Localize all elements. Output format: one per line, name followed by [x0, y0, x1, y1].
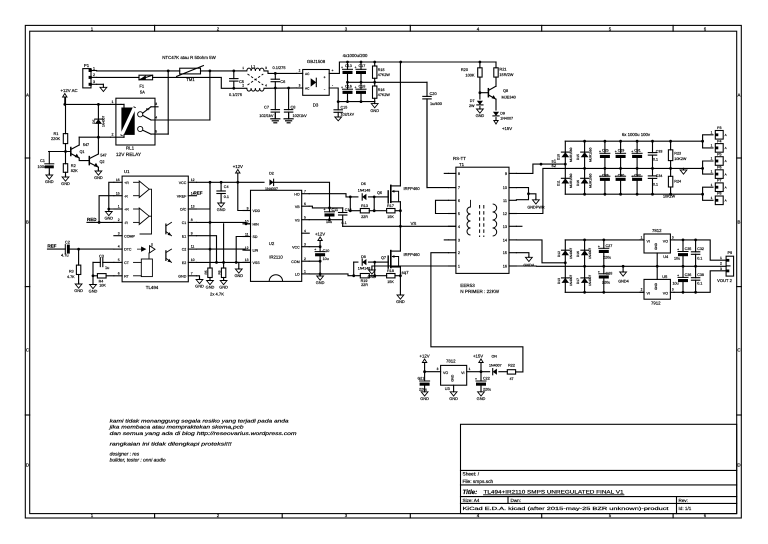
svg-text:11: 11 — [191, 245, 195, 249]
U1 dtc arrow — [137, 247, 146, 251]
wire to P7 P8 — [703, 187, 713, 194]
svg-text:+12V AC: +12V AC — [61, 88, 78, 93]
svg-text:12: 12 — [503, 212, 507, 216]
svg-text:VO: VO — [443, 371, 448, 375]
svg-text:+R: +R — [124, 208, 129, 212]
svg-text:Id: 1/1: Id: 1/1 — [679, 506, 692, 511]
svg-text:C2: C2 — [182, 248, 187, 252]
svg-text:VDD: VDD — [253, 209, 261, 213]
svg-text:C29: C29 — [618, 148, 625, 152]
svg-text:RT: RT — [124, 274, 130, 278]
wire after fuse to choke — [153, 77, 234, 88]
relay RL1 box — [116, 98, 155, 145]
wire HIN tie vertical — [223, 224, 225, 263]
wire U1 C2 row to U2 LIN — [197, 249, 251, 250]
svg-text:AC: AC — [305, 87, 310, 91]
svg-text:1: 1 — [711, 170, 713, 174]
ground below R3 — [78, 283, 80, 284]
svg-text:C33: C33 — [656, 150, 663, 154]
svg-text:C7: C7 — [264, 105, 269, 110]
svg-text:C32: C32 — [697, 247, 704, 251]
svg-text:10: 10 — [245, 220, 249, 224]
svg-text:10K: 10K — [99, 284, 106, 288]
svg-text:U4: U4 — [663, 254, 669, 259]
svg-text:102/1kV: 102/1kV — [259, 113, 274, 118]
ground below U3 — [453, 385, 455, 391]
wire relay feed row — [65, 103, 111, 105]
capacitor C2 4.7u — [48, 248, 66, 250]
svg-text:R23: R23 — [674, 152, 681, 156]
svg-text:22R: 22R — [361, 283, 368, 287]
wire to P5 P6 — [684, 161, 714, 168]
svg-text:47K2W: 47K2W — [378, 93, 391, 97]
svg-text:7: 7 — [458, 186, 460, 190]
capacitor C27 220u — [603, 240, 605, 248]
svg-text:builder, tester : onni audio: builder, tester : onni audio — [110, 457, 166, 463]
svg-text:6x 1000u 100v: 6x 1000u 100v — [622, 132, 651, 137]
capacitor C6 X2 — [274, 73, 276, 79]
T1 right pin stubs — [509, 172, 516, 174]
svg-text:5: 5 — [304, 216, 306, 220]
svg-text:1N4148: 1N4148 — [358, 189, 371, 193]
svg-text:0.1/275: 0.1/275 — [273, 65, 286, 70]
svg-text:GND: GND — [654, 282, 658, 290]
svg-text:GND: GND — [89, 289, 98, 294]
ground GND4 on mid rail — [622, 266, 624, 271]
T1 pin6-pin5 jumper — [436, 200, 449, 213]
svg-text:+: + — [341, 66, 343, 70]
thermistor TM1 — [180, 68, 201, 74]
op-amp U1 TL494 box — [122, 176, 188, 282]
ground at U2 VSS net — [238, 262, 240, 268]
svg-text:4x1000u/200: 4x1000u/200 — [343, 53, 368, 58]
svg-text:1N4007: 1N4007 — [569, 248, 573, 259]
svg-text:-R: -R — [124, 194, 128, 198]
relay coil — [121, 108, 134, 135]
ground below COM — [319, 261, 321, 275]
T1 pin15 wire to GNDA — [516, 253, 529, 257]
svg-text:R16: R16 — [378, 88, 385, 92]
svg-text:+: + — [615, 174, 617, 178]
diode D13 1N4007 — [562, 278, 570, 283]
wire vertical C1/C2 tie — [209, 182, 211, 268]
transistor Q1 — [70, 148, 72, 156]
junction — [209, 70, 212, 73]
capacitor C14 bootstrap — [342, 208, 344, 213]
svg-text:3: 3 — [118, 231, 120, 235]
svg-text:designer : res: designer : res — [110, 451, 140, 457]
wire choke stubs left — [234, 70, 247, 72]
T1 pin12 wire to s2 — [516, 168, 584, 213]
svg-text:P8: P8 — [717, 192, 721, 196]
svg-text:C21: C21 — [418, 376, 425, 380]
svg-text:15: 15 — [503, 251, 507, 255]
svg-text:3: 3 — [304, 243, 306, 247]
T1 pin1 wire to ground — [372, 266, 449, 270]
diode D19 1N4007 — [481, 371, 490, 373]
svg-text:6: 6 — [118, 271, 120, 275]
svg-text:T1: T1 — [459, 162, 465, 167]
+12V power flag aux — [424, 363, 426, 372]
wire U1 C1 row to U2 HIN — [197, 222, 251, 223]
wire U4 output row — [674, 240, 726, 260]
svg-text:U1: U1 — [124, 169, 130, 174]
svg-text:GND: GND — [476, 113, 485, 118]
ground below C21 — [424, 391, 426, 393]
capacitor C18 — [360, 82, 362, 89]
svg-text:1: 1 — [711, 130, 713, 134]
ground HV minus — [374, 102, 376, 104]
svg-text:12: 12 — [191, 178, 195, 182]
resistor R21 15R/2W — [495, 62, 497, 68]
svg-text:B: B — [738, 220, 741, 225]
diode D9 — [495, 99, 497, 110]
svg-text:MUR1560: MUR1560 — [569, 147, 573, 162]
svg-text:100u: 100u — [38, 164, 47, 169]
regulator U5 7912 — [644, 279, 670, 299]
svg-text:0.1: 0.1 — [697, 281, 702, 285]
svg-text:1: 1 — [93, 66, 95, 70]
svg-text:s2: s2 — [552, 163, 557, 168]
U1 output transistor 1 — [165, 224, 167, 234]
svg-text:1: 1 — [711, 196, 713, 200]
resistor R18 15K — [375, 275, 387, 277]
svg-text:+: + — [598, 270, 600, 274]
capacitor C34 0.1 — [652, 168, 654, 176]
svg-text:EER53: EER53 — [460, 283, 475, 288]
svg-text:0.1: 0.1 — [697, 256, 702, 260]
svg-text:RS-TT: RS-TT — [453, 156, 466, 161]
+12V power flag at U1 — [237, 173, 239, 182]
svg-text:C4: C4 — [224, 185, 229, 189]
svg-text:C31: C31 — [634, 148, 641, 152]
wire HV mid rail — [348, 81, 428, 83]
wire relay NO bypass vertical — [167, 71, 169, 134]
svg-text:C27: C27 — [606, 244, 613, 248]
svg-text:+15V: +15V — [473, 354, 483, 359]
svg-text:Dwn:: Dwn: — [511, 498, 521, 503]
U1 pwm buffer triangle — [150, 246, 156, 253]
svg-text:O/C: O/C — [180, 208, 187, 212]
svg-text:1u/400: 1u/400 — [430, 101, 443, 106]
svg-text:C10: C10 — [323, 249, 330, 253]
capacitor C38 0.1 — [695, 266, 697, 277]
svg-text:+: + — [599, 149, 601, 153]
svg-text:+: + — [354, 86, 356, 90]
svg-text:+15V: +15V — [502, 126, 512, 131]
svg-text:F1: F1 — [139, 84, 145, 89]
svg-text:P7: P7 — [717, 179, 721, 183]
svg-text:+: + — [341, 86, 343, 90]
junction — [167, 70, 170, 73]
svg-text:D9: D9 — [500, 111, 505, 115]
svg-text:7812: 7812 — [652, 228, 662, 233]
wire HV top rail — [348, 61, 497, 63]
svg-text:14: 14 — [503, 238, 507, 242]
svg-text:File: smps.sch: File: smps.sch — [463, 479, 494, 485]
svg-text:+: + — [314, 247, 316, 251]
svg-text:A: A — [725, 146, 727, 150]
wire gate Q7 — [375, 261, 389, 263]
svg-text:D5: D5 — [92, 120, 96, 124]
svg-text:4: 4 — [458, 225, 460, 229]
svg-text:P3: P3 — [717, 126, 721, 130]
U1 comparator 2 — [139, 208, 149, 225]
wire C2 to DTC pin — [79, 248, 114, 250]
capacitor C33 0.1 — [652, 141, 654, 152]
svg-text:MUR1560: MUR1560 — [588, 147, 592, 162]
svg-text:1u: 1u — [105, 265, 109, 270]
svg-text:2: 2 — [299, 69, 301, 73]
wire output mid rail — [585, 167, 684, 169]
wire SD tie vertical — [236, 237, 250, 263]
T1 left pin stubs — [449, 172, 456, 174]
wire Q6 source to VS — [399, 202, 401, 227]
svg-text:3: 3 — [265, 66, 267, 70]
svg-text:C: C — [26, 348, 29, 353]
svg-text:1: 1 — [641, 235, 643, 239]
relay pin 1 — [111, 103, 122, 105]
svg-text:GND: GND — [206, 285, 215, 290]
svg-text:GBJ1508: GBJ1508 — [307, 59, 326, 64]
wire U1 +R pins tie — [109, 182, 114, 209]
U1 oscillator box — [141, 259, 152, 277]
svg-text:A: A — [725, 185, 727, 189]
svg-text:NTC47K atau R 50ohm 5W: NTC47K atau R 50ohm 5W — [162, 55, 216, 60]
svg-text:0.1/275: 0.1/275 — [229, 92, 242, 97]
resistor R20 100K — [479, 62, 481, 68]
svg-text:VB: VB — [295, 205, 300, 209]
svg-text:Rev:: Rev: — [679, 498, 688, 503]
resistor R4 10K — [97, 274, 106, 278]
U1 comparator 1 — [139, 181, 149, 198]
wire bridge AC pins — [297, 72, 303, 74]
svg-text:GND4: GND4 — [618, 279, 629, 283]
relay pin com wire — [143, 116, 151, 121]
svg-text:2: 2 — [93, 73, 95, 77]
svg-text:1: 1 — [711, 157, 713, 161]
svg-text:VI: VI — [647, 240, 650, 244]
relay pin nc stub — [151, 106, 158, 108]
svg-text:VCC: VCC — [292, 245, 300, 249]
svg-text:+: + — [354, 66, 356, 70]
regulator U3 7812 — [441, 365, 467, 385]
capacitor C17 — [360, 62, 362, 69]
svg-text:GND: GND — [178, 274, 186, 278]
svg-text:E2: E2 — [182, 261, 186, 265]
svg-text:+: + — [324, 208, 326, 212]
svg-text:C18: C18 — [359, 85, 366, 89]
svg-text:VCC: VCC — [179, 181, 187, 185]
svg-text:2: 2 — [304, 257, 306, 261]
svg-text:+: + — [598, 244, 600, 248]
svg-text:VS: VS — [295, 218, 300, 222]
svg-text:R15: R15 — [378, 68, 385, 72]
ground below C22 — [480, 391, 482, 393]
U1 left pin stubs — [114, 181, 122, 183]
svg-text:2: 2 — [242, 84, 244, 88]
T1 secondary winding — [493, 204, 497, 212]
svg-text:7: 7 — [304, 190, 306, 194]
svg-text:3: 3 — [437, 367, 439, 371]
svg-text:+: + — [599, 174, 601, 178]
capacitor C20 coupling — [426, 82, 428, 96]
chassis earth below C8 — [288, 114, 290, 119]
wire output bottom rail — [565, 193, 702, 195]
svg-text:Q2: Q2 — [99, 160, 104, 164]
svg-text:C34: C34 — [656, 174, 663, 178]
svg-text:Q1: Q1 — [79, 150, 84, 154]
svg-text:Title:: Title: — [463, 489, 478, 496]
svg-text:COMP: COMP — [124, 234, 135, 238]
svg-text:P1: P1 — [84, 63, 90, 68]
svg-text:10: 10 — [503, 186, 507, 190]
svg-text:GND: GND — [45, 179, 54, 184]
+15V power flag — [495, 120, 497, 122]
svg-text:5: 5 — [458, 212, 460, 216]
svg-text:VOUT 2: VOUT 2 — [717, 278, 732, 283]
svg-text:C13: C13 — [345, 64, 352, 68]
transistor Q7 IRFP460 — [387, 256, 389, 268]
svg-text:C15: C15 — [341, 105, 348, 109]
svg-text:VO: VO — [663, 292, 668, 296]
svg-text:CT: CT — [124, 261, 130, 265]
svg-text:GNDPWR: GNDPWR — [527, 205, 545, 209]
svg-text:A: A — [725, 172, 727, 176]
fuse F1 — [139, 75, 153, 80]
svg-text:Size: A4: Size: A4 — [463, 498, 480, 503]
wire Q7 source to ground — [399, 267, 401, 295]
wire after thermistor — [201, 70, 234, 72]
svg-text:15R/2W: 15R/2W — [499, 72, 513, 77]
wire aux bottom rail — [565, 291, 644, 293]
T1 pin14 wire to aux rect — [516, 240, 565, 263]
capacitor C30 — [620, 168, 622, 176]
wire VS rail — [343, 225, 456, 227]
svg-text:10K2W: 10K2W — [674, 157, 687, 161]
svg-text:+: + — [631, 174, 633, 178]
svg-text:R6: R6 — [217, 270, 221, 274]
wire bridge plus output — [329, 62, 347, 73]
svg-text:D: D — [737, 463, 740, 468]
U1 comparator output wire — [140, 189, 152, 234]
svg-text:C17: C17 — [359, 64, 366, 68]
diode D7 zener — [479, 93, 481, 99]
wire C20 to transformer pin7 — [427, 100, 449, 188]
svg-text:D16: D16 — [576, 180, 580, 186]
transistor Q2 — [88, 157, 90, 165]
T1 pin9 wire to s1 — [516, 164, 565, 173]
transistor Q6 IRFP460 — [387, 191, 389, 203]
ground below R2 — [65, 176, 67, 178]
border column ticks top/bottom — [154, 25, 156, 31]
svg-text:2x 4.7K: 2x 4.7K — [210, 291, 224, 296]
svg-text:P5: P5 — [717, 152, 721, 156]
svg-text:12V RELAY: 12V RELAY — [116, 152, 142, 158]
resistor R2 82K — [65, 152, 67, 164]
svg-text:RL1: RL1 — [126, 146, 135, 151]
svg-text:3: 3 — [458, 238, 460, 242]
svg-text:547: 547 — [100, 154, 106, 158]
svg-text:16: 16 — [503, 265, 507, 269]
wire regulators GND tie — [656, 253, 658, 279]
svg-text:E1: E1 — [182, 234, 186, 238]
svg-text:R3: R3 — [69, 270, 74, 274]
capacitor C10 — [319, 247, 321, 252]
ground small below C15 — [335, 117, 342, 121]
resistor R23 10K2W — [670, 141, 672, 150]
svg-text:8: 8 — [191, 218, 193, 222]
svg-text:GND: GND — [449, 396, 458, 401]
svg-text:R18: R18 — [387, 269, 394, 273]
svg-text:REF: REF — [194, 191, 203, 196]
ground at Q2 emitter — [97, 167, 99, 169]
T1 pin10 pin11 wires to GNDPWR — [516, 188, 528, 200]
svg-text:nc: nc — [146, 107, 150, 111]
svg-text:kami tidak menanggung segala r: kami tidak menanggung segala resiko yang… — [110, 418, 289, 424]
svg-text:D16: D16 — [576, 251, 580, 257]
svg-text:Sheet: /: Sheet: / — [463, 472, 480, 478]
svg-text:4.7u: 4.7u — [61, 253, 69, 258]
capacitor C26 — [604, 168, 606, 176]
svg-text:2W: 2W — [469, 104, 475, 108]
+12V power flag at U2 VCC — [319, 241, 321, 247]
svg-text:GND: GND — [104, 216, 113, 221]
svg-text:R22: R22 — [508, 363, 515, 367]
op-amp U2 IR2110 box — [251, 190, 302, 281]
wire D2 to VB node — [274, 182, 330, 208]
svg-text:10u: 10u — [323, 257, 329, 261]
capacitor C21 220u — [424, 372, 426, 381]
svg-text:GND: GND — [74, 288, 83, 293]
svg-text:7912: 7912 — [651, 301, 661, 306]
svg-text:GND: GND — [370, 108, 379, 113]
U2 right pins — [302, 193, 310, 195]
svg-text:1N4007: 1N4007 — [569, 275, 573, 286]
svg-text:D7: D7 — [470, 99, 475, 103]
svg-text:11: 11 — [503, 199, 507, 203]
svg-text:1N4007: 1N4007 — [265, 187, 278, 191]
svg-text:GND: GND — [477, 396, 486, 401]
svg-text:1: 1 — [242, 66, 244, 70]
T1 pin2 wire to aux 7812 — [431, 253, 523, 372]
svg-text:N PRIMER : 22KW: N PRIMER : 22KW — [460, 289, 499, 294]
chassis earth below C7 — [274, 114, 276, 119]
svg-text:D17: D17 — [576, 278, 580, 284]
svg-text:VSS: VSS — [253, 261, 261, 265]
svg-text:13: 13 — [245, 258, 249, 262]
capacitor C7 Y — [274, 88, 276, 110]
svg-text:IRFP460: IRFP460 — [404, 186, 421, 191]
svg-text:GND: GND — [234, 273, 243, 278]
svg-text:TL494: TL494 — [146, 285, 159, 290]
svg-text:220u: 220u — [603, 255, 611, 259]
svg-text:D6: D6 — [361, 182, 366, 186]
svg-text:COM: COM — [291, 260, 299, 264]
svg-text:R21: R21 — [499, 66, 506, 71]
resistor R15 — [374, 62, 376, 66]
svg-text:GND: GND — [61, 181, 70, 186]
svg-text:1N4007: 1N4007 — [500, 116, 513, 120]
capacitor C13 — [347, 62, 349, 69]
ground at P1 pin3 — [97, 83, 104, 85]
ground below R4 — [92, 283, 94, 286]
svg-text:sq7: sq7 — [402, 270, 410, 275]
wire U2 COM row — [309, 260, 320, 262]
connector P9 VOUT2 — [726, 256, 734, 276]
svg-text:A: A — [725, 133, 727, 137]
capacitor C29 — [620, 141, 622, 153]
